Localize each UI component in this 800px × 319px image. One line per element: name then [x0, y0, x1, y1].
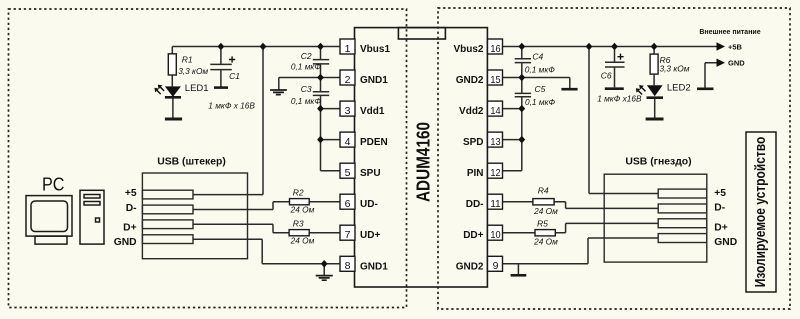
svg-text:UD+: UD+: [360, 230, 380, 241]
svg-text:DD+: DD+: [463, 230, 483, 241]
svg-text:C5: C5: [535, 84, 546, 94]
svg-text:D+: D+: [714, 222, 727, 233]
svg-text:11: 11: [490, 198, 500, 210]
svg-text:R3: R3: [293, 219, 304, 229]
svg-text:PIN: PIN: [467, 168, 484, 179]
svg-text:Vbus1: Vbus1: [360, 44, 390, 55]
svg-text:24 Ом: 24 Ом: [533, 236, 558, 246]
svg-text:14: 14: [490, 105, 500, 117]
svg-text:1 мкФ х16В: 1 мкФ х16В: [597, 94, 642, 104]
svg-text:16: 16: [490, 43, 500, 55]
svg-text:GND: GND: [114, 237, 137, 248]
svg-text:D-: D-: [126, 203, 137, 214]
svg-text:3: 3: [345, 105, 351, 117]
svg-text:C4: C4: [532, 51, 543, 61]
svg-text:24 Ом: 24 Ом: [290, 205, 315, 215]
svg-text:0,1 мкФ: 0,1 мкФ: [525, 97, 555, 107]
svg-text:+5: +5: [125, 188, 137, 199]
svg-text:24 Ом: 24 Ом: [290, 236, 315, 246]
svg-text:15: 15: [490, 74, 500, 86]
svg-text:1 мкФ х 16В: 1 мкФ х 16В: [208, 101, 255, 111]
svg-text:0,1 мкФ: 0,1 мкФ: [525, 64, 555, 74]
svg-text:USB (гнездо): USB (гнездо): [625, 157, 691, 168]
svg-text:+5В: +5В: [728, 42, 743, 51]
svg-text:D+: D+: [123, 223, 136, 234]
svg-text:LED2: LED2: [667, 82, 691, 93]
svg-text:PC: PC: [42, 174, 65, 194]
svg-text:7: 7: [345, 229, 351, 241]
svg-text:R4: R4: [538, 185, 549, 195]
svg-text:3,3 кОм: 3,3 кОм: [660, 63, 690, 73]
svg-text:SPD: SPD: [463, 137, 484, 148]
svg-text:GND2: GND2: [456, 261, 484, 272]
svg-text:DD-: DD-: [466, 199, 484, 210]
svg-text:GND2: GND2: [456, 75, 484, 86]
svg-text:GND: GND: [714, 237, 737, 248]
svg-text:GND: GND: [728, 58, 745, 67]
svg-text:LED1: LED1: [185, 83, 209, 94]
svg-text:Vbus2: Vbus2: [453, 44, 483, 55]
svg-text:PDEN: PDEN: [360, 137, 388, 148]
svg-text:UD-: UD-: [360, 199, 378, 210]
svg-text:6: 6: [345, 198, 351, 210]
svg-text:+5: +5: [714, 188, 726, 199]
svg-text:4: 4: [345, 136, 351, 148]
svg-text:12: 12: [490, 167, 500, 179]
svg-text:8: 8: [345, 260, 351, 272]
svg-text:C1: C1: [229, 71, 240, 81]
svg-text:Внешнее питание: Внешнее питание: [699, 29, 760, 36]
svg-text:0,1 мкФ: 0,1 мкФ: [291, 96, 321, 106]
svg-text:24 Ом: 24 Ом: [533, 206, 558, 216]
svg-text:C2: C2: [301, 51, 312, 61]
svg-text:3,3 кОм: 3,3 кОм: [178, 66, 208, 76]
svg-text:R1: R1: [182, 54, 193, 64]
svg-text:C3: C3: [301, 84, 312, 94]
svg-text:2: 2: [345, 74, 351, 86]
svg-text:C6: C6: [601, 70, 612, 80]
svg-text:SPU: SPU: [360, 168, 381, 179]
svg-text:Vdd2: Vdd2: [459, 106, 484, 117]
svg-text:USB (штекер): USB (штекер): [157, 157, 226, 168]
svg-text:Vdd1: Vdd1: [360, 106, 385, 117]
svg-text:R2: R2: [293, 187, 304, 197]
svg-text:Изолируемое устройство: Изолируемое устройство: [752, 137, 768, 288]
svg-text:13: 13: [490, 136, 500, 148]
svg-text:R5: R5: [537, 218, 548, 228]
svg-text:10: 10: [490, 229, 500, 241]
svg-text:5: 5: [345, 167, 351, 179]
svg-text:9: 9: [493, 260, 499, 272]
svg-text:0,1 мкФ: 0,1 мкФ: [291, 62, 321, 72]
svg-text:1: 1: [345, 43, 351, 55]
svg-text:ADUM4160: ADUM4160: [414, 122, 434, 202]
svg-text:D-: D-: [714, 203, 725, 214]
svg-text:GND1: GND1: [360, 261, 388, 272]
svg-text:GND1: GND1: [360, 75, 388, 86]
